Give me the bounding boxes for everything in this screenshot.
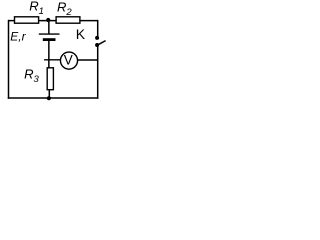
wire middle lower xyxy=(48,40,50,68)
wire right lower xyxy=(97,45,99,99)
wire middle upper xyxy=(48,20,50,34)
label R1 xyxy=(29,0,44,17)
switch K lower contact xyxy=(95,43,99,47)
node top junction xyxy=(46,18,50,22)
svg-text:E,r: E,r xyxy=(10,29,26,43)
svg-text:R2: R2 xyxy=(57,0,72,18)
svg-text:K: K xyxy=(76,26,86,42)
wire top xyxy=(9,20,98,22)
label R2 xyxy=(57,0,72,18)
wire R3 bottom xyxy=(48,90,50,98)
wire voltmeter right xyxy=(78,59,98,61)
wire bottom xyxy=(8,97,99,99)
resistor R1 xyxy=(15,17,39,23)
label E,r xyxy=(10,29,26,43)
resistor R2 xyxy=(56,17,80,23)
svg-text:R3: R3 xyxy=(24,66,39,85)
wire voltmeter left xyxy=(44,59,61,61)
resistor R3 xyxy=(47,68,53,90)
switch K upper contact xyxy=(95,36,99,40)
battery E,r short plate xyxy=(43,38,56,41)
node bottom junction xyxy=(47,96,51,100)
label K xyxy=(76,26,86,42)
wire left xyxy=(8,20,10,99)
svg-text:R1: R1 xyxy=(29,0,44,17)
switch K blade xyxy=(97,41,105,46)
voltmeter V xyxy=(60,52,77,69)
battery E,r long plate xyxy=(39,33,60,35)
wire right upper xyxy=(97,20,99,38)
svg-text:V: V xyxy=(64,53,73,68)
label R3 xyxy=(24,66,39,85)
